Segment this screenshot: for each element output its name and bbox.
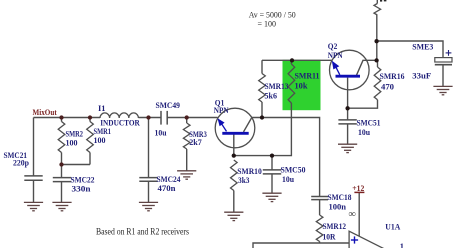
wire SMR1 leads [89, 118, 91, 165]
ground SMC22 [52, 201, 71, 203]
svg-text:100: 100 [94, 136, 106, 145]
svg-text:SMR2: SMR2 [66, 129, 84, 138]
capacitor SMC18 [311, 196, 328, 198]
node Q2 collector junction [374, 58, 378, 62]
resistor SMR3 [183, 123, 190, 149]
wire SMR10 bottom lead [233, 191, 235, 213]
capacitor SMC51 [338, 119, 356, 121]
svg-text:10R: 10R [323, 233, 337, 242]
node Q1 base junction [232, 153, 236, 157]
svg-text:SMC18: SMC18 [328, 193, 352, 202]
wire SMR13 leads [261, 60, 263, 117]
node MixOut/SMR2 junction [59, 115, 63, 119]
svg-text:Based on R1 and R2 receivers: Based on R1 and R2 receivers [96, 227, 189, 237]
svg-text:I1: I1 [98, 104, 106, 113]
svg-text:= 100: = 100 [258, 18, 277, 28]
capacitor SMC49 [160, 111, 162, 125]
ground SME3 [433, 85, 452, 87]
svg-text:SMC50: SMC50 [281, 166, 306, 175]
capacitor SMC21 [24, 175, 42, 177]
node Q1 collector junction [260, 115, 264, 119]
wire SMC18 to SMR12 [319, 200, 321, 243]
wire Q1 base lead down [233, 134, 235, 155]
wire base line to SMR11 bottom [234, 103, 292, 156]
ground SMC51 [338, 143, 357, 145]
svg-text:SMR11: SMR11 [295, 72, 320, 81]
capacitor SME3 electrolytic [435, 58, 452, 65]
svg-text:SMC22: SMC22 [71, 176, 95, 185]
svg-text:470: 470 [381, 83, 394, 92]
svg-text:10u: 10u [358, 128, 370, 137]
wire SMC50 leads [271, 156, 273, 194]
resistor SMR11 [288, 64, 295, 103]
ground SMR3 [177, 170, 196, 172]
svg-text:2k7: 2k7 [189, 138, 202, 147]
wire Q2 collector [357, 60, 377, 75]
ground SMR10 [224, 211, 243, 213]
wire op-amp + input rail [253, 243, 349, 248]
svg-text:10u: 10u [282, 175, 294, 184]
wire SMR2/SMR1 bottom joining [62, 164, 91, 166]
svg-text:33uF: 33uF [412, 71, 431, 80]
resistor SMR16 [374, 67, 381, 100]
ground SMC21 [24, 201, 43, 203]
resistor SMR10 [231, 160, 238, 191]
svg-text:10k: 10k [295, 82, 308, 91]
svg-text:220p: 220p [13, 159, 29, 168]
svg-text:NPN: NPN [214, 106, 229, 115]
svg-text:+12: +12 [352, 184, 364, 193]
resistor SMR1 [87, 122, 94, 153]
svg-text:INDUCTOR: INDUCTOR [100, 118, 140, 127]
op-amp U1A [349, 209, 386, 248]
svg-text:NPN: NPN [328, 51, 343, 60]
svg-text:10u: 10u [155, 129, 167, 138]
svg-text:330n: 330n [72, 184, 91, 193]
wire +12 supply lead to op-amp [358, 193, 360, 237]
node SME3 rail junction [374, 39, 378, 43]
svg-text:SME3: SME3 [412, 43, 433, 52]
node Q2 base junction [345, 106, 349, 110]
resistor top-right partial [374, 4, 381, 16]
wire MixOut horizontal [34, 117, 218, 119]
svg-text:1: 1 [400, 242, 404, 248]
svg-text:100n: 100n [329, 202, 347, 211]
wire SMR3 leads [186, 118, 188, 171]
svg-text:SMR1: SMR1 [94, 127, 112, 136]
wire to SME3 [377, 41, 443, 86]
svg-text:MixOut: MixOut [33, 108, 57, 117]
transistor Q2 [330, 50, 370, 90]
svg-text:5k6: 5k6 [265, 92, 278, 101]
svg-text:470n: 470n [158, 184, 176, 193]
resistor SMR12 [316, 215, 323, 242]
wire Q1 collector to SMC18 [244, 118, 320, 197]
svg-text:Q2: Q2 [328, 42, 338, 51]
wire Q2 base lead [347, 78, 349, 109]
wire top rail [262, 59, 332, 61]
transistor Q1 [215, 108, 255, 148]
svg-text:U1A: U1A [385, 223, 400, 232]
capacitor SMC24 [139, 177, 157, 179]
wire SMC22 leads [61, 165, 63, 203]
svg-text:SMC51: SMC51 [357, 118, 381, 127]
node SMC50 junction [270, 153, 274, 157]
node SMR3 junction [185, 115, 189, 119]
node SMC22 junction [59, 162, 63, 166]
wire SMR16 top lead / +12 rail vertical [376, 0, 379, 67]
wire SMC24 leads [148, 118, 150, 203]
node SMR11 top junction [290, 58, 294, 62]
capacitor SMC22 [53, 177, 71, 179]
power +12 (top rail, cut off) [380, 0, 382, 2]
resistor SMR13 [259, 74, 266, 103]
svg-text:SMC49: SMC49 [156, 101, 181, 110]
svg-text:∞: ∞ [349, 209, 356, 220]
svg-text:100: 100 [66, 138, 78, 147]
highlight box around SMR11 [283, 60, 321, 110]
svg-text:3k3: 3k3 [238, 176, 250, 185]
resistor SMR2 [58, 122, 65, 153]
wire SMC21 lead [33, 118, 35, 203]
ground SMC50 [262, 192, 281, 194]
svg-text:SMR12: SMR12 [323, 222, 347, 231]
wire SMC51 leads [347, 108, 349, 144]
wire SMR11 top lead [290, 60, 292, 64]
ground SMC24 [139, 201, 158, 203]
svg-text:SMR16: SMR16 [380, 72, 405, 81]
power +12 (op-amp supply) [352, 184, 364, 193]
wire Q2 base to SMR16 bottom [348, 100, 378, 108]
svg-text:SMR13: SMR13 [265, 82, 289, 91]
wire SMR2 leads [61, 118, 63, 165]
node SMC24 junction [146, 115, 150, 119]
node SMR1 junction [88, 115, 92, 119]
svg-text:SMC24: SMC24 [157, 175, 182, 184]
capacitor SMC50 [263, 169, 281, 171]
inductor I1 [100, 113, 138, 118]
